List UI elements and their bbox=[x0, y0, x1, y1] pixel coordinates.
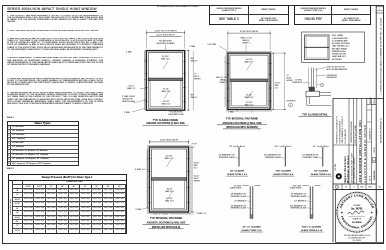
svg-text:GLASS TYPES 1 & 2: GLASS TYPES 1 & 2 bbox=[227, 173, 248, 176]
svg-text:A: A bbox=[345, 186, 347, 189]
svg-text:4" MAX.: 4" MAX. bbox=[228, 111, 235, 114]
svg-text:3/16": 3/16" bbox=[274, 146, 278, 148]
svg-text:3" TYP.: 3" TYP. bbox=[192, 144, 198, 146]
svg-text:MAX. DLO: MAX. DLO bbox=[162, 90, 171, 93]
svg-text:TABLE 3: TABLE 3 bbox=[191, 59, 198, 62]
svg-text:1/2" I.G. GLAZING: 1/2" I.G. GLAZING bbox=[242, 226, 261, 229]
svg-text:MAX. O.C.: MAX. O.C. bbox=[127, 87, 136, 90]
svg-text:52-1/8" BUCK WIDTH: 52-1/8" BUCK WIDTH bbox=[240, 31, 259, 33]
svg-text:TEMPERED GLASS: TEMPERED GLASS bbox=[265, 156, 282, 159]
svg-text:TEMPERED GLASS: TEMPERED GLASS bbox=[231, 207, 247, 210]
svg-text:TEMPERED GLASS: TEMPERED GLASS bbox=[302, 156, 319, 159]
svg-text:2": 2" bbox=[251, 112, 253, 114]
svg-text:ADS-779B BACKBEDDING: ADS-779B BACKBEDDING bbox=[327, 68, 348, 71]
svg-text:GLASS STACK: GLASS STACK bbox=[290, 187, 302, 190]
svg-text:ANCHOR LOCATIONS @ NAIL SIZE: ANCHOR LOCATIONS @ NAIL SIZE bbox=[146, 122, 185, 125]
svg-text:TYP. GLAZING DETAIL: TYP. GLAZING DETAIL bbox=[302, 114, 328, 117]
svg-text:TEMPERED GLASS: TEMPERED GLASS bbox=[231, 195, 247, 198]
svg-text:1/4" AIRSPACE: 1/4" AIRSPACE bbox=[234, 199, 247, 202]
svg-text:No. 58705: No. 58705 bbox=[351, 207, 363, 210]
svg-text:TABLE 3: TABLE 3 bbox=[191, 96, 198, 99]
svg-text:STATE OF: STATE OF bbox=[353, 218, 362, 221]
svg-text:REV 4: REV 4 bbox=[374, 99, 376, 104]
svg-text:8" MAX. O.C.: 8" MAX. O.C. bbox=[135, 168, 146, 171]
svg-text:ANCHOR LOCATIONS @ NAIL SIZE: ANCHOR LOCATIONS @ NAIL SIZE bbox=[147, 221, 186, 224]
svg-text:GLASS TYPES 5 & 6: GLASS TYPES 5 & 6 bbox=[311, 173, 332, 176]
svg-text:ELEVATION & GENERAL NOTES: ELEVATION & GENERAL NOTES bbox=[363, 125, 367, 183]
svg-text:THAT THE MAX. DLO: THAT THE MAX. DLO bbox=[332, 45, 350, 48]
svg-text:GLASS TYPES 7 & 8: GLASS TYPES 7 & 8 bbox=[242, 229, 263, 232]
svg-text:CONFIGURATIONS: CONFIGURATIONS bbox=[332, 37, 349, 40]
svg-text:1/8": 1/8" bbox=[229, 146, 232, 148]
svg-text:MAX. DLO: MAX. DLO bbox=[165, 157, 174, 160]
svg-text:A. LYNN MILLER, P.E.: A. LYNN MILLER, P.E. bbox=[348, 236, 365, 239]
svg-text:MAX. DLO: MAX. DLO bbox=[162, 102, 171, 105]
svg-text:HEIGHT: HEIGHT bbox=[194, 181, 200, 183]
svg-text:MAX. DLO: MAX. DLO bbox=[245, 96, 254, 99]
svg-text:SH4000FUFN VERSION 2.1: SH4000FUFN VERSION 2.1 bbox=[380, 117, 382, 143]
svg-text:9/9: 9/9 bbox=[378, 187, 380, 189]
svg-text:08/30/17: 08/30/17 bbox=[370, 97, 372, 103]
svg-text:SGS4000 SS: SGS4000 SS bbox=[327, 77, 338, 79]
svg-text:REGISTRATION #29096: REGISTRATION #29096 bbox=[350, 122, 353, 143]
svg-text:EXCEEDED.: EXCEEDED. bbox=[332, 59, 343, 61]
svg-text:MEETING RAIL: MEETING RAIL bbox=[122, 100, 135, 103]
svg-text:GLASS TYPES 9 & 10: GLASS TYPES 9 & 10 bbox=[301, 229, 323, 232]
svg-text:B: B bbox=[373, 161, 375, 163]
svg-text:NTS: NTS bbox=[360, 187, 364, 189]
svg-text:REQUIRED IN SILL: REQUIRED IN SILL bbox=[169, 114, 185, 116]
svg-text:52-1/2" BUCK WIDTH: 52-1/2" BUCK WIDTH bbox=[160, 140, 179, 142]
svg-text:MAX. DLO: MAX. DLO bbox=[161, 58, 170, 61]
svg-text:9/16" I.G. GLAZING: 9/16" I.G. GLAZING bbox=[302, 226, 322, 229]
svg-text:DIMENSIONS AS: DIMENSIONS AS bbox=[332, 50, 347, 53]
svg-text:3" MAX.: 3" MAX. bbox=[126, 50, 133, 53]
svg-text:7180 S. TAMIAMI TRL, S. VENICE: 7180 S. TAMIAMI TRL, S. VENICE, FL bbox=[341, 116, 344, 143]
svg-text:EXTERIOR: EXTERIOR bbox=[287, 100, 296, 102]
svg-text:TEMPERED GLASS: TEMPERED GLASS bbox=[291, 195, 307, 198]
svg-text:2": 2" bbox=[159, 214, 161, 216]
svg-text:★: ★ bbox=[341, 210, 344, 214]
svg-text:TEMPERED GLASS: TEMPERED GLASS bbox=[218, 156, 235, 159]
svg-text:52-1/2" BUCK WIDTH: 52-1/2" BUCK WIDTH bbox=[156, 35, 175, 37]
svg-text:MAX. DLO: MAX. DLO bbox=[245, 61, 254, 64]
svg-text:EST. 2005: EST. 2005 bbox=[335, 164, 337, 171]
svg-text:Windows & Doors: Windows & Doors bbox=[346, 155, 350, 183]
svg-text:1/4": 1/4" bbox=[313, 146, 316, 148]
svg-text:TYP. INTEGRAL FIN FRAME: TYP. INTEGRAL FIN FRAME bbox=[150, 217, 183, 220]
svg-text:3" MAX. O.C.: 3" MAX. O.C. bbox=[197, 212, 208, 215]
svg-text:TWC: TWC bbox=[368, 187, 372, 189]
svg-text:53-1/8" TIP TO TIP WIDTH: 53-1/8" TIP TO TIP WIDTH bbox=[154, 31, 177, 33]
svg-text:TLM TECHNOLOGIES GROUP: TLM TECHNOLOGIES GROUP bbox=[339, 121, 341, 144]
svg-text:SHEET 3: SHEET 3 bbox=[220, 82, 227, 84]
svg-text:SHEET ARE NOT: SHEET ARE NOT bbox=[332, 55, 347, 58]
svg-text:1 - CORRECTED DWG SCALE, TABLE: 1 - CORRECTED DWG SCALE, TABLE 2 & GENER… bbox=[379, 17, 382, 95]
svg-text:DLO: DLO bbox=[275, 88, 279, 90]
svg-text:DLO: DLO bbox=[194, 168, 198, 170]
svg-text:GLASS TYPES 3 & 4: GLASS TYPES 3 & 4 bbox=[273, 173, 294, 176]
svg-text:ASH WINDOW INSTALLATION (NI): ASH WINDOW INSTALLATION (NI) bbox=[358, 120, 362, 183]
svg-text:PH: (941) 400-1228: PH: (941) 400-1228 bbox=[345, 129, 347, 143]
svg-text:GLASS STACK: GLASS STACK bbox=[230, 187, 242, 190]
svg-text:# MODIFIED JN: # MODIFIED JN bbox=[369, 128, 371, 140]
svg-text:3" MAX.: 3" MAX. bbox=[190, 45, 197, 48]
svg-text:REQUIRED IN HEAD: REQUIRED IN HEAD bbox=[157, 42, 175, 45]
svg-text:GLASS BITE: GLASS BITE bbox=[292, 81, 303, 84]
svg-text:ANCHOR LOCATIONS @ MAX. SIZE: ANCHOR LOCATIONS @ MAX. SIZE bbox=[222, 122, 262, 125]
svg-text:DWG. FRAME: DWG. FRAME bbox=[332, 34, 344, 37]
svg-text:(INSTALLED WITH SCREWS): (INSTALLED WITH SCREWS) bbox=[226, 126, 258, 129]
svg-text:FLORIDA: FLORIDA bbox=[352, 221, 362, 224]
svg-text:MAX. DLO: MAX. DLO bbox=[245, 104, 254, 107]
svg-text:AND MAX. FRAME: AND MAX. FRAME bbox=[332, 47, 348, 50]
svg-text:TEMPERED GLASS: TEMPERED GLASS bbox=[291, 207, 307, 210]
svg-text:ILLUSTRATED ARE: ILLUSTRATED ARE bbox=[332, 39, 349, 42]
svg-text:PREPARED BY: A. LYNN MILLER, P: PREPARED BY: A. LYNN MILLER, P.E. bbox=[336, 115, 339, 143]
svg-text:CERT. OF AUTH. #29096: CERT. OF AUTH. #29096 bbox=[354, 125, 357, 143]
svg-text:6-1/2" MAX.: 6-1/2" MAX. bbox=[207, 43, 217, 46]
svg-text:4: 4 bbox=[337, 187, 338, 189]
svg-text:REV. B: REV. B bbox=[369, 176, 371, 181]
svg-text:C: C bbox=[353, 187, 355, 189]
svg-text:1 OF 4: 1 OF 4 bbox=[374, 148, 376, 154]
svg-text:SHEET 3: SHEET 3 bbox=[242, 43, 249, 45]
svg-text:HEIGHT: HEIGHT bbox=[194, 78, 200, 80]
svg-text:TYP. INTEGRAL FIN FRAME: TYP. INTEGRAL FIN FRAME bbox=[226, 118, 259, 121]
svg-text:1/4" AIRSPACE: 1/4" AIRSPACE bbox=[294, 199, 307, 202]
svg-text:SH4000SA: SH4000SA bbox=[373, 170, 376, 180]
svg-text:3" MAX.: 3" MAX. bbox=[135, 208, 142, 211]
svg-text:P.E. #58705: P.E. #58705 bbox=[353, 240, 362, 242]
svg-text:3105 S.E. DOMINICA TER. STUART: 3105 S.E. DOMINICA TER. STUART, FL 34997 bbox=[350, 153, 353, 183]
svg-text:(INSTALLED WITH NAILS): (INSTALLED WITH NAILS) bbox=[152, 226, 181, 229]
svg-text:MAX. DLO: MAX. DLO bbox=[165, 200, 174, 203]
svg-text:ALLOWED PROVIDED: ALLOWED PROVIDED bbox=[332, 42, 351, 45]
svg-text:9" MAX.: 9" MAX. bbox=[124, 111, 131, 114]
svg-text:1/4" GLAZING: 1/4" GLAZING bbox=[314, 170, 329, 173]
svg-text:★: ★ bbox=[370, 210, 373, 214]
svg-text:3/16" GLAZING: 3/16" GLAZING bbox=[276, 170, 292, 173]
svg-text:TYP. FLANGE FRAME: TYP. FLANGE FRAME bbox=[153, 119, 179, 122]
svg-text:MAX. DLO: MAX. DLO bbox=[165, 190, 174, 193]
svg-text:1/8" GLAZING: 1/8" GLAZING bbox=[230, 170, 245, 173]
